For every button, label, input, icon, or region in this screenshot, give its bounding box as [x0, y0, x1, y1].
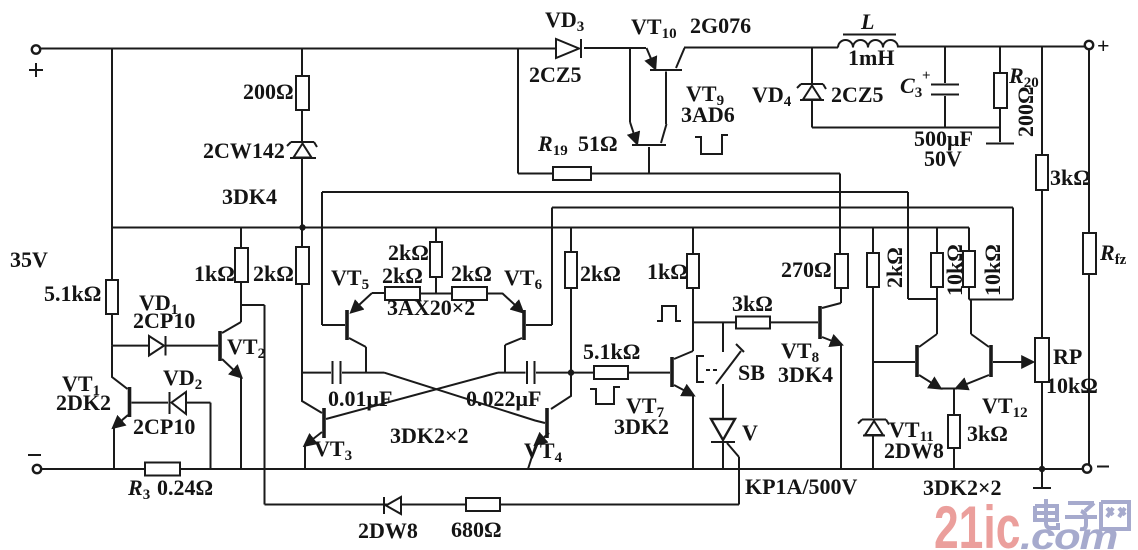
resistor 200ohm (zener feed)	[296, 76, 309, 110]
transistor VT9 3AD6	[632, 144, 666, 146]
wire: bottom negative rail	[37, 468, 1083, 470]
resistor 2k right (VT6)	[452, 287, 487, 300]
wire: VT12b base to RP wiper	[993, 361, 1031, 363]
transistor VT12b	[989, 345, 993, 377]
wire: line B drop to VT12b collector	[969, 208, 1013, 300]
resistor 1kohm (VT7 collector load)	[692, 228, 694, 255]
inductor L 1mH	[838, 40, 898, 48]
svg-text:2kΩ: 2kΩ	[580, 261, 621, 286]
svg-text:2G076: 2G076	[690, 13, 751, 38]
svg-text:1kΩ: 1kΩ	[647, 259, 688, 284]
svg-text:+: +	[922, 68, 931, 84]
svg-text:.com: .com	[1020, 515, 1117, 550]
svg-text:2kΩ: 2kΩ	[388, 240, 429, 265]
svg-text:1kΩ: 1kΩ	[194, 261, 235, 286]
wire: cross-coupling diagonal to VT4 base	[384, 373, 545, 423]
resistor R3 0.24ohm	[145, 463, 180, 476]
resistor 5.1kohm (VT1 bias)	[106, 280, 118, 314]
resistor 2k center vertical	[435, 228, 437, 243]
diode VD4 2CZ5 (freewheel zener)	[811, 47, 813, 85]
svg-text:10kΩ: 10kΩ	[980, 244, 1005, 296]
svg-text:680Ω: 680Ω	[451, 517, 502, 542]
svg-text:L: L	[860, 9, 874, 34]
resistor 5.1k (VT7 base)	[571, 372, 594, 374]
svg-text:2CW142: 2CW142	[203, 138, 285, 163]
svg-text:2kΩ: 2kΩ	[253, 261, 294, 286]
watermark zi (child) glyph	[1065, 503, 1097, 529]
svg-text:0.24Ω: 0.24Ω	[157, 475, 213, 500]
wire: feedback line A y=192	[322, 191, 908, 193]
transistor VT2	[218, 331, 222, 361]
resistor 2k (VT6 collector load x=571)	[570, 228, 572, 253]
svg-text:2DW8: 2DW8	[358, 518, 418, 543]
zener VT11 2DW8	[858, 420, 889, 425]
capacitor C3 500uF 50V	[944, 47, 946, 84]
transistor VT12a	[915, 345, 919, 377]
svg-text:2kΩ: 2kΩ	[451, 261, 492, 286]
ground at RP bottom	[1041, 469, 1043, 487]
transistor VT10 2G076 (series pass)	[650, 69, 682, 71]
transistor VT7 3DK2	[670, 357, 674, 387]
svg-text:3kΩ: 3kΩ	[1050, 165, 1091, 190]
resistor 3k (VT8 base)	[736, 317, 770, 329]
terminal: + input	[32, 45, 40, 53]
wire: left branch x=112 from top rail down	[111, 49, 113, 281]
capacitor 0.022uF	[498, 372, 526, 374]
terminal: - output	[1083, 464, 1091, 472]
svg-text:2CP10: 2CP10	[133, 308, 195, 333]
wire: 200ohm to zener	[301, 110, 303, 142]
node: pulse symbol below 5.1k	[590, 387, 620, 404]
resistor R20 200ohm	[999, 47, 1001, 74]
wire: trigger line y=504.5 to thyristor gate	[265, 504, 740, 506]
svg-text:3DK2: 3DK2	[614, 414, 669, 439]
svg-text:5.1kΩ: 5.1kΩ	[583, 339, 640, 364]
wire: VT6 base from line B	[526, 208, 552, 326]
wire: top positive rail	[36, 47, 1089, 49]
wire: VT5 base from line A	[322, 192, 345, 325]
wire: feedback line B y=207.5	[552, 207, 1013, 209]
svg-text:35V: 35V	[10, 247, 48, 272]
resistor 10k #2	[968, 228, 970, 252]
resistor R19 51ohm	[518, 48, 553, 174]
watermark wang (net) glyph	[1101, 502, 1129, 529]
resistor 270ohm (VT8 collector)	[839, 174, 841, 255]
watermark dian (electric) glyph	[1035, 499, 1058, 528]
resistor 3k (top right divider)	[1041, 47, 1043, 156]
svg-text:3DK2×2: 3DK2×2	[390, 423, 469, 448]
svg-text:0.022μF: 0.022μF	[466, 386, 541, 411]
svg-text:3AX20×2: 3AX20×2	[387, 295, 475, 320]
resistor 2k (VT3 bias)	[301, 228, 303, 248]
svg-text:3DK4: 3DK4	[778, 362, 833, 387]
svg-text:V: V	[742, 420, 758, 445]
diode 2DW8 (trigger)	[383, 497, 385, 514]
wire: VT8 base wire y=322.4	[693, 321, 736, 323]
svg-text:RP: RP	[1053, 344, 1082, 369]
node: pulse symbol at VT7 collector	[657, 306, 681, 321]
svg-text:3kΩ: 3kΩ	[967, 421, 1008, 446]
wire: 200ohm/zener branch x=302	[301, 49, 303, 77]
resistor 1k (VT2 collector load)	[240, 228, 242, 249]
node: junction dot at RP bottom on rail	[1039, 466, 1045, 472]
zener 2CW142	[287, 142, 317, 147]
capacitor 0.01uF	[302, 372, 331, 374]
wire: line A drop to VT12a collector	[908, 192, 937, 299]
svg-text:1mH: 1mH	[848, 45, 894, 70]
transistor VT3	[322, 408, 326, 438]
node: pulse symbol near VT9	[695, 135, 728, 154]
svg-text:KP1A/500V: KP1A/500V	[745, 474, 858, 499]
terminal: - input	[33, 465, 41, 473]
svg-text:3DK4: 3DK4	[222, 184, 277, 209]
svg-text:2CZ5: 2CZ5	[831, 82, 884, 107]
wire: 2k bottom down to VT3 base	[302, 284, 322, 413]
transistor VT6	[502, 293, 522, 311]
svg-text:2CP10: 2CP10	[133, 414, 195, 439]
resistor 2k (VT12 base divider x=873)	[872, 228, 874, 254]
wire: cross-coupling diagonal from VT3 collector	[326, 373, 498, 419]
transistor VT5	[345, 310, 349, 340]
wire: freewheel/filter bottom wire y=127.5	[812, 127, 1000, 129]
svg-text:200Ω: 200Ω	[243, 79, 294, 104]
svg-text:SB: SB	[738, 360, 765, 385]
svg-text:2kΩ: 2kΩ	[882, 247, 907, 288]
svg-text:+: +	[1097, 33, 1110, 58]
wire: bias rail y=227.5	[112, 227, 969, 229]
svg-text:270Ω: 270Ω	[781, 257, 832, 282]
svg-text:3kΩ: 3kΩ	[732, 291, 773, 316]
diode VD3 2CZ5	[556, 39, 579, 58]
svg-text:0.01μF: 0.01μF	[328, 386, 392, 411]
resistor Rfz (load)	[1085, 41, 1093, 49]
svg-text:50V: 50V	[924, 146, 962, 171]
transistor VT8 3DK4	[818, 306, 822, 339]
svg-text:2kΩ: 2kΩ	[382, 263, 423, 288]
svg-text:2DK2: 2DK2	[56, 390, 111, 415]
wire: VT2 collector node and step to trigger line	[241, 282, 265, 505]
potentiometer RP 10k	[1035, 338, 1049, 382]
diode VD2 2CP10	[169, 392, 171, 414]
svg-text:51Ω: 51Ω	[578, 131, 618, 156]
svg-text:21ic: 21ic	[934, 495, 1020, 550]
resistor 2k left (VT5)	[385, 287, 420, 300]
resistor 10k #1	[936, 228, 938, 254]
svg-text:5.1kΩ: 5.1kΩ	[44, 281, 101, 306]
node: junction dot bias rail	[299, 224, 305, 230]
thyristor V KP1A/500V	[711, 419, 735, 440]
svg-text:2DW8: 2DW8	[884, 438, 944, 463]
node: junction dot 571,372.6	[568, 369, 574, 375]
wire: 5.1k bottom to VD1 node	[111, 314, 113, 346]
resistor 680ohm (trigger)	[466, 498, 500, 511]
resistor 3k (VT12 emitter)	[948, 415, 960, 448]
diode VD1 2CP10	[112, 345, 149, 347]
ground below R20	[986, 143, 1014, 145]
transistor VT1 2DK2	[112, 346, 128, 389]
svg-text:3AD6: 3AD6	[681, 102, 735, 127]
svg-text:2CZ5: 2CZ5	[529, 62, 582, 87]
switch SB (pushbutton)	[722, 322, 724, 352]
svg-text:10kΩ: 10kΩ	[1046, 373, 1098, 398]
transistor VT4	[545, 408, 549, 438]
svg-text:200Ω: 200Ω	[1013, 86, 1038, 137]
